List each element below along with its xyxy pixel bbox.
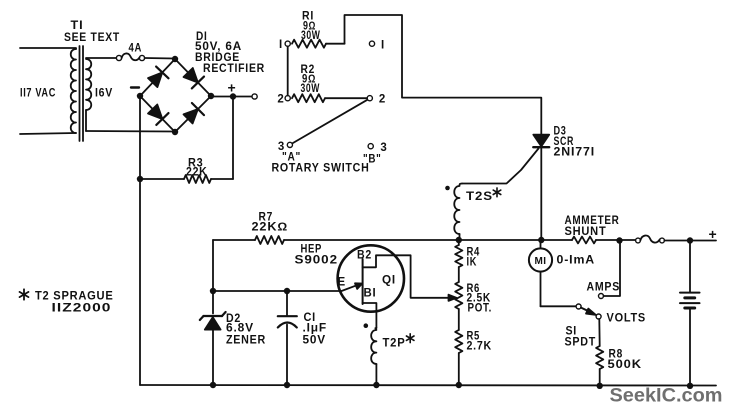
transistor Q1 base bar [362,259,364,304]
label 2 B-side [379,94,386,106]
wire rail corner down to E node [212,240,214,291]
wire bridge plus to terminal [211,96,252,98]
svg-text:T2P: T2P [383,338,406,350]
junction R3 left [137,176,143,182]
svg-text:.IμF: .IμF [303,323,328,335]
label T1 [71,20,84,32]
label 2.5K [467,293,492,305]
resistor R8 [596,319,603,386]
label D1 [196,31,208,43]
label R5 [467,331,481,343]
terminal at bridge plus [252,94,257,99]
switch S1 contact VOLTS [596,314,601,319]
svg-text:IIZ2000: IIZ2000 [52,301,112,315]
resistor R5 [455,309,462,385]
svg-text:POT.: POT. [468,303,493,315]
svg-text:SeekIC.com: SeekIC.com [610,385,723,407]
label RECTIFIER [203,63,265,75]
meter M1 [529,240,576,306]
label B1 [364,288,377,300]
wire R1 to SCR anode [345,15,542,135]
label T2S [466,191,493,203]
potentiometer R6 [455,282,462,309]
svg-text:E: E [338,277,346,289]
svg-text:+: + [228,80,236,96]
svg-text:MI: MI [535,256,547,267]
svg-text:HEP: HEP [301,243,323,255]
footnote asterisk [20,289,29,299]
transformer T1 core [80,46,84,141]
wire secondary bottom to bridge [86,130,175,133]
label AMPS [587,282,621,294]
wire fuse to plus terminal [664,240,716,242]
label 6.8V [226,323,254,335]
svg-text:T2S: T2S [466,191,493,203]
battery [680,241,700,387]
label HEP [301,243,323,255]
rotary switch terminal 1B [369,41,374,46]
svg-text:22KΩ: 22KΩ [252,222,289,234]
label 500K [608,359,643,371]
rotary switch terminal 3B [368,144,373,149]
label R6 [467,283,481,295]
wire 1A to 2A [287,47,289,96]
label E [338,277,346,289]
svg-text:ROTARY SWITCH: ROTARY SWITCH [272,163,370,175]
label R1 [302,10,314,22]
label Q1 [382,275,396,287]
rotary switch terminal 2B [367,96,372,101]
svg-text:3: 3 [380,142,387,154]
svg-text:2: 2 [379,94,386,106]
svg-text:"A": "A" [282,152,301,164]
label R2 30W [301,83,321,95]
wire minus rail down-left side [139,96,141,385]
label D2 [226,313,241,325]
svg-text:0-ImA: 0-ImA [557,255,596,267]
ammeter shunt resistor [572,237,596,244]
svg-text:RECTIFIER: RECTIFIER [203,63,265,75]
label 0-1mA [557,255,596,267]
wire shunt to fuse [596,239,636,241]
label 4A [129,43,143,55]
bottom negative rail [140,384,716,387]
label C1 [304,312,317,324]
junction SCR cathode [538,237,544,243]
label 22Kohm [252,222,289,234]
wire main rail left section [213,239,255,241]
svg-text:500K: 500K [608,359,643,371]
svg-text:QI: QI [382,275,396,287]
svg-text:SEE TEXT: SEE TEXT [64,32,120,44]
label R1 30W [301,30,321,42]
label A [282,152,301,164]
label S9002 [295,255,339,267]
junction T2P bottom [373,382,379,388]
svg-text:+: + [709,226,717,242]
junction battery top [687,237,693,243]
svg-text:AMPS: AMPS [587,282,621,294]
svg-text:B2: B2 [357,250,372,262]
bridge node right (plus) [208,93,214,99]
label S1 [566,326,578,338]
label 1K [467,257,478,269]
label D3 [554,126,567,138]
plus sign at bridge output [228,80,236,96]
label 2.7K [467,341,493,353]
junction bridge plus [230,93,236,99]
output fuse [636,236,665,243]
transistor Q1 B1 lead [363,303,377,328]
label SPDT [565,337,597,349]
wire plus down to R3 [232,97,234,180]
label SCR [554,136,575,148]
label R3 [188,158,204,170]
label SHUNT [565,226,607,238]
label R7 [259,211,274,223]
label 3 A-side [278,141,285,153]
switch S1 pole [576,304,581,309]
label B [363,154,382,166]
svg-text:S9002: S9002 [295,255,339,267]
bridge diode bottom-right [184,103,205,124]
resistor R1 [292,40,345,48]
footnote T2 Sprague [35,289,114,303]
watermark SeekIC.com [610,385,723,407]
junction battery bottom [687,383,693,389]
label R8 [609,349,624,361]
svg-text:SPDT: SPDT [565,337,597,349]
label 50V [303,335,327,347]
label ROTARY SWITCH [272,163,370,175]
junction T2S/R4 [456,237,462,243]
svg-text:BI: BI [364,288,377,300]
bridge diode top-left [148,67,169,88]
svg-text:II7 VAC: II7 VAC [20,88,56,100]
junction C1 top [284,288,290,294]
plus sign output [709,226,717,242]
capacitor C1 [278,291,297,385]
label 3 B-side [380,142,387,154]
label R2 9ohm [302,74,316,86]
wire AMPS contact to shunt junction [604,241,621,297]
svg-text:22K: 22K [186,167,208,179]
bridge node top [172,56,178,62]
label 16V [95,88,113,100]
transistor Q1 circle [338,245,404,311]
label R2 [301,64,316,76]
svg-text:ZENER: ZENER [226,335,266,347]
svg-text:2: 2 [277,94,284,106]
bridge diode bottom-left [148,105,169,125]
wire rail R7 to shunt [284,239,572,241]
junction D2 bottom [210,382,216,388]
label .1uF [303,323,328,335]
label VOLTS [607,313,647,325]
resistor R2 [292,94,367,102]
bridge node bottom [172,129,178,135]
label 22K [186,167,208,179]
winding T2P [371,328,376,385]
rotary switch wiper 3A-2B [292,100,367,144]
label T2P [383,338,406,350]
svg-text:I6V: I6V [95,88,113,100]
minus sign [131,86,139,88]
label B2 [357,250,372,262]
svg-text:4A: 4A [129,43,143,55]
label T2S asterisk [493,188,501,197]
svg-text:50V: 50V [303,335,327,347]
svg-text:VOLTS: VOLTS [607,313,647,325]
svg-text:SHUNT: SHUNT [565,226,607,238]
transformer T1 secondary winding [86,58,116,131]
svg-text:TI: TI [71,20,84,32]
svg-text:6.8V: 6.8V [226,323,254,335]
switch S1 blade [581,308,596,315]
wiper arrow into R6 [449,295,457,301]
svg-text:2.7K: 2.7K [467,341,493,353]
label 50V, 6A [195,41,242,53]
label 1 A-side [279,39,283,51]
transistor Q1 emitter arrow [342,283,363,291]
zener diode D2 [200,291,226,385]
label 117 VAC [20,88,56,100]
svg-text:I: I [381,40,385,52]
label T2P asterisk [406,334,414,343]
label ZENER [226,335,266,347]
label POT. [468,303,493,315]
junction C1 bottom [284,382,290,388]
rotary switch terminal 2A [285,96,290,101]
resistor R7 [255,236,284,244]
footnote 11Z2000 [52,301,112,315]
rotary switch terminal 1A [285,41,290,46]
switch S1 contact AMPS [599,294,604,299]
fuse 4A [116,53,175,60]
wire emitter node [213,290,341,292]
label 2 A-side [277,94,284,106]
resistor R4 [455,240,462,282]
winding T2S [454,184,462,241]
junction D2 top [210,288,216,294]
bridge diode top-right [184,68,205,88]
bridge rectifier D1 diamond [140,59,211,132]
transistor Q1 B2 lead [363,255,448,297]
junction R5 bottom [456,382,462,388]
label R4 [467,247,481,259]
label SEE TEXT [64,32,120,44]
polarity dot T2P [364,323,369,328]
polarity dot T2S [445,186,450,191]
svg-text:30W: 30W [301,30,321,42]
svg-text:2NI77I: 2NI77I [554,146,596,158]
svg-text:30W: 30W [301,83,321,95]
svg-text:I: I [279,39,283,51]
bridge node left (minus) [137,93,143,99]
transformer T1 primary winding [20,48,76,134]
rotary switch terminal 3A [287,142,292,147]
resistor R3 [140,175,233,183]
label BRIDGE [195,52,240,64]
junction shunt-amps [616,237,622,243]
svg-text:IK: IK [467,257,478,269]
label 2N1771 [554,146,596,158]
SCR D3 [533,135,549,240]
SCR D3 gate wire [462,149,539,184]
junction R8 bottom [597,383,603,389]
label R1 9ohm [303,20,316,32]
label AMMETER [565,215,620,227]
label 1 B-side [381,40,385,52]
